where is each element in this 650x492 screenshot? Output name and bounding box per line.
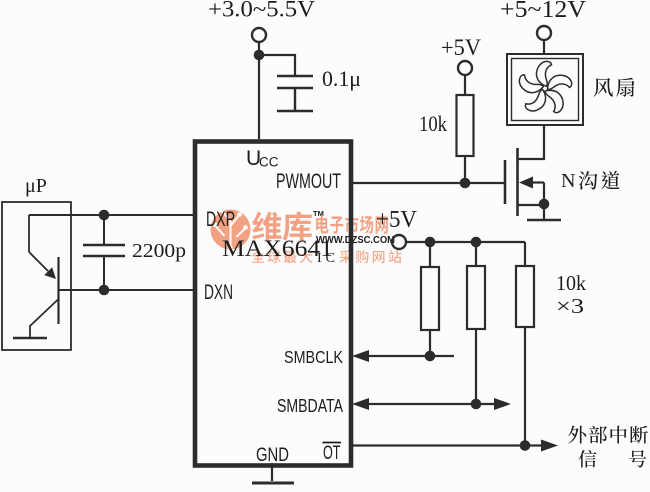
transistor Q2 emitter	[30, 299, 59, 337]
svg-text:μP: μP	[25, 175, 47, 197]
capacitor C2 2200p bottom lead	[103, 256, 105, 290]
terminal +5V rail	[392, 235, 406, 249]
wire R4 to OT line	[524, 327, 526, 445]
ground (uP sensor)	[13, 337, 47, 339]
microprocessor box	[2, 202, 71, 350]
wire rail to R2	[429, 242, 431, 267]
svg-text:DXP: DXP	[206, 207, 235, 231]
svg-text:+5V: +5V	[376, 207, 418, 233]
wire +5V rail	[406, 241, 525, 243]
transistor Q2 sense collector	[28, 215, 30, 252]
resistor R2 10k	[421, 267, 439, 330]
ground (MOSFET source)	[527, 219, 561, 222]
capacitor C2 2200p top lead	[103, 215, 105, 245]
svg-text:OT: OT	[323, 443, 341, 464]
fan impeller blades	[510, 56, 576, 122]
wire PWMOUT to gate	[351, 182, 505, 184]
resistor R3 10k	[467, 266, 485, 329]
transistor Q1 body arrow	[530, 181, 544, 183]
junction dot SMBDATA/R3	[471, 399, 482, 410]
svg-text:10k: 10k	[419, 111, 448, 136]
arrowhead SMBDATA outward	[494, 398, 511, 410]
svg-text:SMBDATA: SMBDATA	[277, 396, 343, 416]
watermark logo circle icon	[211, 208, 251, 250]
svg-text:+5~12V: +5~12V	[500, 0, 587, 23]
svg-text:N: N	[561, 170, 575, 192]
ground (bypass capacitor)	[277, 110, 313, 112]
wire OT out	[351, 444, 545, 446]
junction dot supply node	[254, 50, 265, 61]
junction dot DXP/C2	[99, 210, 110, 221]
terminal +3.0~5.5V	[252, 28, 266, 42]
svg-text:CC: CC	[259, 155, 279, 170]
label 信号 (signal)	[579, 450, 597, 468]
junction dot rail/R2	[425, 237, 436, 248]
wire +5V to R1	[464, 75, 466, 95]
wire SMBCLK	[357, 355, 454, 357]
label 风扇 (fan)	[594, 78, 613, 97]
junction dot DXN/C2	[99, 285, 110, 296]
fan M1 (风扇) outer frame	[507, 54, 583, 125]
wire rail to R4	[524, 242, 526, 266]
svg-text:2200p: 2200p	[132, 240, 186, 262]
wire rail to R3	[475, 242, 477, 266]
resistor R1 10k	[457, 95, 474, 156]
capacitor 0.1u bypass	[277, 76, 313, 110]
wire GND pin	[271, 463, 273, 481]
wire fan to MOSFET drain	[517, 125, 544, 159]
transistor Q1 N-channel MOSFET gate bar	[504, 160, 507, 204]
wire R2 to SMBCLK	[429, 330, 431, 356]
svg-text:10k: 10k	[556, 271, 586, 295]
svg-text:×3: ×3	[556, 294, 584, 318]
svg-text:0.1μ: 0.1μ	[322, 66, 361, 91]
junction dot rail/R3	[471, 237, 482, 248]
junction dot PWMOUT node	[460, 178, 471, 189]
wire Ucc supply vertical	[258, 42, 260, 139]
op-amp U1 MAX6641 IC body	[195, 142, 351, 466]
wire DXP line	[29, 214, 194, 216]
svg-text:MAX6641: MAX6641	[222, 236, 333, 262]
arrowhead SMBDATA into IC	[352, 398, 369, 410]
watermark text 全球最大IC采购网站	[251, 250, 264, 263]
junction dot OT/R4	[520, 440, 531, 451]
wire R1 to PWMOUT node	[464, 156, 466, 183]
watermark text 维库	[252, 212, 281, 241]
wire R3 to SMBDATA	[475, 329, 477, 404]
svg-text:GND: GND	[256, 445, 289, 466]
junction dot source node	[539, 199, 550, 210]
transistor Q2 arrowhead	[44, 267, 56, 279]
arrowhead external interrupt	[541, 440, 558, 452]
svg-text:+5V: +5V	[441, 35, 481, 60]
wire fan supply	[543, 40, 545, 54]
transistor Q2 base bar	[57, 257, 59, 324]
watermark text 电子市场网	[316, 216, 328, 234]
terminal +5V pull-up	[458, 61, 472, 75]
ground (IC GND)	[252, 482, 294, 485]
svg-text:PWMOUT: PWMOUT	[276, 170, 341, 193]
wire to bypass capacitor	[259, 55, 295, 76]
transistor Q1 source lead	[518, 183, 545, 220]
resistor R4 10k	[516, 266, 534, 327]
transistor Q1 channel bar	[516, 148, 519, 216]
terminal +5~12V	[537, 26, 551, 40]
junction dot SMBCLK/R2	[425, 351, 436, 362]
svg-text:DXN: DXN	[204, 280, 233, 304]
arrowhead SMBCLK into IC	[352, 350, 369, 362]
svg-text:SMBCLK: SMBCLK	[284, 347, 343, 367]
wire DXN line	[59, 289, 195, 291]
fan M1 inner frame	[512, 59, 579, 121]
wire SMBDATA	[357, 403, 497, 405]
label 外部中断 (external interrupt)	[568, 426, 586, 444]
capacitor C2 2200p plates	[83, 245, 125, 256]
svg-text:+3.0~5.5V: +3.0~5.5V	[208, 0, 315, 22]
